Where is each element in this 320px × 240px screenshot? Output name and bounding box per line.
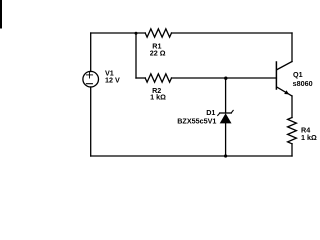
- wire R2 branch vertical: [135, 33, 137, 78]
- svg-text:Q1: Q1: [293, 70, 303, 79]
- wire D1 upper: [225, 78, 227, 113]
- wire Q1 collector vertical: [291, 33, 293, 62]
- svg-text:1 kΩ: 1 kΩ: [301, 133, 317, 142]
- svg-text:BZX55c5V1: BZX55c5V1: [177, 117, 216, 126]
- svg-text:12 V: 12 V: [105, 76, 120, 85]
- resistor R2: [145, 74, 171, 102]
- wire left vertical upper (top wire to V1): [90, 33, 92, 72]
- zener diode D1 BZX55c5V1: [177, 108, 233, 125]
- voltage source V1 12 V: [83, 69, 120, 87]
- wire top left (V1 top to R1): [91, 32, 146, 34]
- wire R4 bottom lead: [291, 144, 293, 156]
- node C junction dot (D1 to bottom wire): [224, 154, 227, 157]
- wire R2 to Q1 base: [172, 77, 277, 79]
- svg-text:1 kΩ: 1 kΩ: [150, 93, 166, 102]
- wire Q1 emitter vertical to R4: [291, 96, 293, 118]
- wire bottom: [91, 155, 292, 157]
- resistor R4: [288, 118, 317, 144]
- svg-text:s8060: s8060: [293, 79, 313, 88]
- svg-text:22 Ω: 22 Ω: [150, 49, 166, 58]
- wire top right (R1 to Q1 collector corner): [172, 32, 293, 34]
- wire D1 lower: [225, 123, 227, 156]
- node A junction dot (top wire to R2 branch): [135, 32, 138, 35]
- resistor R1: [145, 29, 171, 58]
- transistor Q1 s8060: [276, 62, 312, 97]
- margin bar: [0, 0, 2, 29]
- wire R2 left lead: [136, 77, 145, 79]
- node B junction dot (base wire to D1): [224, 77, 227, 80]
- wire left vertical lower (V1 to bottom): [90, 87, 92, 156]
